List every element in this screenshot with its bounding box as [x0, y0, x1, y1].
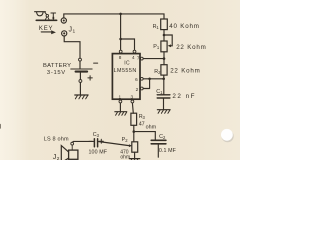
battery terminal (top): [79, 58, 82, 61]
wire: branch to pin 4: [121, 39, 135, 50]
wire: battery to ground: [79, 73, 81, 95]
capacitor C3 (electrolytic, series): [94, 139, 97, 147]
node: rail to IC supply drop: [119, 13, 122, 16]
svg-text:3: 3: [97, 133, 100, 138]
svg-text:J: J: [69, 27, 73, 34]
C3 minus sign: [89, 140, 92, 142]
speaker terminal: [71, 142, 74, 145]
pin 7: [140, 57, 143, 60]
svg-text:7: 7: [137, 55, 140, 60]
label BATTERY 3-15V: [43, 63, 71, 76]
svg-text:40 Kohm: 40 Kohm: [169, 23, 199, 30]
pin 3: [131, 100, 134, 103]
pin 4: [133, 50, 136, 53]
wire: R1 to P1, node and wiper tie: [163, 30, 165, 41]
pin 8: [119, 50, 122, 53]
svg-text:2: 2: [163, 135, 166, 140]
punch hole sticker: [221, 129, 234, 142]
battery plus sign: [88, 76, 92, 80]
battery terminal (bottom): [79, 80, 82, 83]
wire: pin 3 to R3: [131, 103, 134, 113]
wire: pin 1 to ground: [119, 103, 121, 111]
wiper arrow of P2: [129, 144, 132, 147]
ground (pin 1): [115, 112, 127, 116]
wire: upper jack up to V+ rail and across to R1: [64, 14, 164, 19]
wire: drop to pin 8: [120, 14, 122, 50]
svg-text:0.1 MF: 0.1 MF: [159, 148, 177, 154]
node: pin 7 junction: [163, 57, 166, 60]
svg-text:47: 47: [139, 121, 145, 127]
label J2: [53, 154, 60, 162]
svg-text:KEY: KEY: [39, 26, 53, 32]
svg-text:3: 3: [131, 94, 134, 99]
svg-text:3-15V: 3-15V: [47, 70, 66, 76]
svg-text:100 MF: 100 MF: [89, 150, 108, 156]
svg-text:LS 8 ohm: LS 8 ohm: [44, 136, 69, 142]
svg-text:ohm: ohm: [146, 125, 157, 131]
loudspeaker LS (clipped at page bottom): [61, 146, 78, 163]
node: pin6/2 junction: [162, 78, 165, 81]
wire: pin 6 to R2/C1 junction: [143, 78, 163, 80]
svg-text:1: 1: [156, 25, 159, 30]
wire: lower jack to battery: [64, 36, 80, 58]
svg-text:1: 1: [119, 94, 122, 99]
svg-text:BATTERY: BATTERY: [43, 63, 71, 69]
potentiometer P1: [161, 41, 167, 52]
wire: pin 7 to divider: [143, 58, 164, 60]
svg-text:LM555N: LM555N: [114, 68, 137, 74]
C3 plus sign: [99, 139, 103, 143]
svg-text:2: 2: [125, 138, 128, 143]
battery BT1 3-15V: [71, 69, 92, 72]
wiper arrow of P1: [168, 44, 171, 47]
svg-text:4: 4: [132, 55, 135, 60]
svg-text:1: 1: [157, 45, 160, 50]
node: R3/P2/C2 junction: [133, 130, 136, 133]
wire: C3 to P2 wiper (slopes down): [98, 142, 129, 146]
svg-text:IC: IC: [124, 61, 130, 67]
wire: C1 to ground: [163, 99, 165, 110]
resistor R1: [161, 19, 168, 30]
wire: speaker to C3: [72, 140, 93, 143]
potentiometer P2: [132, 142, 138, 152]
wire: [79, 61, 81, 68]
ground (P2, clipped): [129, 159, 139, 162]
edge speck: [0, 125, 1, 129]
pin 2: [140, 87, 143, 90]
capacitor C2: [151, 140, 166, 144]
label J1: [69, 27, 76, 35]
svg-text:6: 6: [135, 77, 138, 82]
wire: terminal to speaker: [71, 145, 73, 150]
svg-text:2: 2: [136, 87, 139, 92]
pin 6: [140, 77, 143, 80]
wire: P1 to R2: [163, 52, 165, 65]
wire: P2 to ground: [134, 152, 136, 158]
wire: pin 2 tie to pin 6: [143, 79, 149, 89]
svg-text:22 Kohm: 22 Kohm: [176, 44, 206, 51]
key switch S1 (morse key, side view): [35, 12, 57, 21]
svg-text:1: 1: [73, 28, 76, 34]
resistor R2: [161, 65, 167, 75]
wire: R3 to P2: [133, 125, 135, 142]
wire: R2 to C1: [163, 75, 165, 94]
node: pin6 tie: [148, 78, 151, 81]
svg-text:22 Kohm: 22 Kohm: [170, 67, 200, 74]
jack J1 (two tip jacks): [61, 18, 67, 36]
battery minus sign: [94, 62, 98, 64]
svg-text:2: 2: [57, 156, 60, 160]
op-amp/timer IC U1 LM555N: [112, 54, 140, 100]
pin 1: [119, 100, 122, 103]
ground (C1): [157, 110, 170, 114]
wire: junction to C2: [134, 132, 156, 140]
svg-text:ohm: ohm: [120, 155, 130, 160]
arrow (points to J1): [41, 30, 56, 34]
capacitor C1: [157, 95, 170, 98]
node: pin8/pin4 branch: [119, 38, 122, 41]
svg-text:8: 8: [119, 55, 122, 60]
ground (battery): [75, 95, 88, 99]
svg-text:22 nF: 22 nF: [172, 93, 196, 100]
svg-text:3: 3: [143, 115, 146, 120]
wire: C2 down lead: [157, 145, 159, 158]
resistor R3: [131, 113, 137, 125]
